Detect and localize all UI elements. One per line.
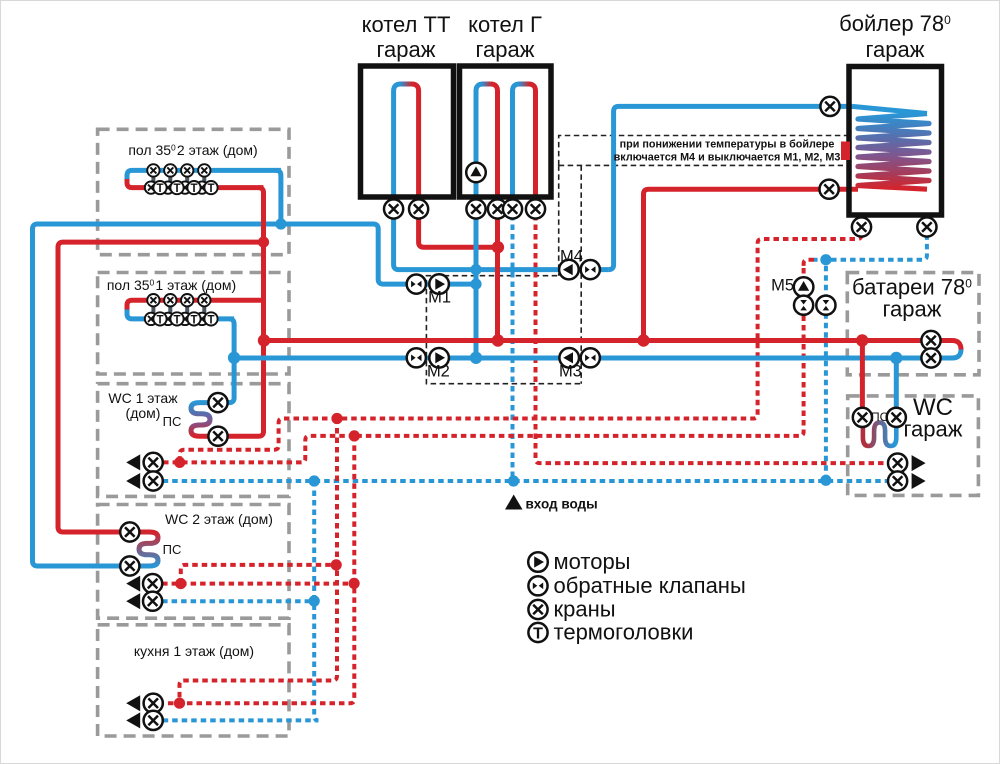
svg-text:гараж: гараж [883,297,942,322]
svg-text:М3: М3 [559,363,582,381]
manifold pol2 links [153,174,204,183]
svg-text:WC 2 этаж (дом): WC 2 этаж (дом) [165,511,273,527]
wire kotel TT U-top gradient [394,84,419,91]
tap triangle WC2 cold [126,593,140,609]
zone box WC garazh [848,396,979,496]
valve kotel TT red [409,199,428,218]
tap triangle kitchen cold [126,712,140,728]
wire kotel G loop2 blue [510,91,515,215]
svg-text:обратные клапаны: обратные клапаны [554,573,746,598]
wire pol2 red riser [259,188,264,243]
wire dhw hot trunk A down [180,419,338,704]
svg-text:гараж: гараж [904,417,963,442]
wire kotel TT blue down and M4 feed line [394,91,609,270]
check valve M4 [581,260,600,279]
valve batarei return [921,348,940,367]
wire heating blue main return [234,350,961,359]
valve boiler bottom red line [820,180,839,199]
wire blue line y224 to M1 [281,224,476,284]
legend valve symbol [528,600,547,619]
svg-text:моторы: моторы [554,549,631,574]
pump M1 [429,274,449,294]
towel warmer PS WC1 [191,403,218,437]
pump kotel G internal [466,163,486,183]
valve boiler dhw cold [917,217,936,236]
valve kotel G loop1 blue [466,199,485,218]
wire kotel G loop2 U-top [513,84,536,91]
svg-text:пол 350 1 этаж (дом): пол 350 1 этаж (дом) [107,277,236,293]
valve WC1 PS top [208,393,227,412]
check valve M1 [407,275,426,294]
junction node pol2 blue [275,218,286,229]
valve boiler top blue [820,97,839,116]
wire boiler blue stub [924,215,929,222]
zone box WC 1 etazh dom [98,384,289,497]
junction node dhw kitchen tap [174,698,185,709]
wire dhw recirc gradient elbow [804,260,814,268]
svg-text:включается М4 и выключается М1: включается М4 и выключается М1, М2, М3 [614,152,841,164]
wire pol1 manifold blue bar [127,310,234,319]
svg-text:WC 1 этаж: WC 1 этаж [108,390,178,406]
manifold pol1 T heads [153,312,166,326]
wire dhw WC2 tap row [153,582,354,586]
junction node dhw recirc trunkB top [349,430,360,441]
tap triangle WC garazh hot [912,455,926,471]
wire heating red far-left loop [58,242,264,532]
svg-text:ПС: ПС [163,414,182,429]
svg-text:котел Г: котел Г [468,12,542,37]
pump M4 [559,260,579,280]
boiler coil [858,114,929,190]
svg-text:котел ТТ: котел ТТ [362,12,451,37]
svg-text:М4: М4 [560,248,583,266]
junction node red mains merge [492,241,504,253]
manifold pol2 T heads [153,181,166,195]
valve WC2 hot tap [143,574,162,593]
wire kotel G loop1 red [495,91,500,341]
control dashed M1-M2-M3 group frame [426,276,581,384]
svg-text:ПС: ПС [163,542,182,557]
manifold pol2 valves [147,164,159,176]
wire dhw cold riser to boiler inlet [824,260,828,481]
check valve M3 [581,348,600,367]
svg-text:гараж: гараж [476,37,535,62]
junction node dhw cold trunk [309,475,320,486]
junction node red main kotel G [492,334,504,346]
junction node dhw WC2 trunkB [349,578,360,589]
junction node red main left [258,334,270,346]
junction node blue main left [228,352,240,364]
junction node dhw WC2 upper [331,559,342,570]
wire kotel G loop2 red [533,91,538,215]
towel warmer PS WC2 [138,532,158,566]
junction node blue M4 line [470,264,481,275]
wire dhw cold main horizontal [153,479,896,483]
svg-text:кухня 1 этаж (дом): кухня 1 этаж (дом) [134,643,254,659]
valve WC1 PS bottom [208,427,227,446]
manifold pol1 valves [147,294,159,306]
svg-text:М2: М2 [427,363,450,381]
valve kotel TT blue [384,199,403,218]
wire heating blue far-left loop [33,224,281,566]
wire boiler red stub [859,215,864,222]
valve kotel G loop2 blue [503,199,522,218]
control dashed riser right / M-group right edge [580,165,582,383]
valve boiler dhw hot [852,217,871,236]
svg-text:бойлер 780: бойлер 780 [839,11,951,36]
wire dhw hot kotel G loop2 down to WC garazh [536,215,898,463]
svg-text:краны: краны [554,597,616,622]
wire batarei red riser down to WC garazh PS [860,341,865,413]
svg-text:при понижении температуры в бо: при понижении температуры в бойлере [620,139,835,151]
zone box batarei garazh [847,273,979,375]
check valve M2 [407,348,426,367]
tap triangle WC1 hot [126,454,140,470]
valve WC1 cold tap [144,471,163,490]
wire dhw cold WC2 row [153,599,315,603]
wire dhw recirc M5 riser [354,268,803,436]
svg-text:T: T [533,626,543,643]
wire dhw cold trunk down left [314,481,318,720]
kotel box G [460,66,552,197]
valve kitchen hot tap [144,694,163,713]
wire pol1 blue riser to main [229,319,234,358]
valve WC2 cold tap [143,592,162,611]
wire dhw cold boiler inlet elbow [814,215,927,259]
water inlet triangle [505,495,523,510]
wire kotel TT red down elbow [419,91,498,247]
valve WC garazh hot tap [888,454,907,473]
zone box WC 2 etazh dom [98,505,289,619]
control dashed text frame [559,136,848,166]
towel warmer PS WC garazh [863,419,896,446]
zone box kuhnya 1 etazh dom [98,625,289,736]
junction node dhw cold boiler branch [820,475,831,486]
junction node dhw cold boiler riser [820,254,831,265]
wire pol2 manifold red bar [127,179,264,188]
wire dhw recirc trunk B down [153,436,354,703]
boiler temp sensor [841,142,850,161]
valve WC1 hot tap [144,453,163,472]
check valve boiler cold riser [816,296,835,315]
svg-text:термоголовки: термоголовки [554,620,694,645]
wire dhw hot boiler out elbow [337,215,862,418]
valve WC2 PS top [120,522,139,541]
legend thermo head symbol [528,623,547,643]
junction node dhw WC2 tap [175,578,186,589]
wire kotel G loop1 blue [474,91,479,358]
svg-text:гараж: гараж [866,37,925,62]
valve WC garazh cold tap [888,471,907,490]
wire pol1 U gradient [125,304,130,316]
wire heating red main [264,341,961,350]
pump M3 [559,348,579,368]
wire pol2 manifold blue bar [127,170,281,179]
manifold pol2 X circles [145,181,157,193]
zone box pol 35-2 etazh dom [98,129,289,254]
svg-text:ПС: ПС [871,410,889,424]
pump M2 [429,348,449,368]
valve kotel G loop2 red [526,199,545,218]
legend check valve symbol [528,576,547,595]
wire pol1 manifold red bar [127,300,264,309]
wire heating blue trunk down to WC1 [218,358,234,403]
wire dhw cold riser to kotel G loop2 [511,215,515,481]
junction node blue M1 line [470,279,481,290]
wire dhw WC2 upper branch [181,565,336,584]
valve WC2 PS bottom [120,556,139,575]
junction node blue main kotel G [470,352,482,364]
check valve M5 [794,296,813,315]
tap triangle kitchen hot [126,695,140,711]
wire blue riser to boiler top [609,106,852,269]
junction node red main batarei [856,334,868,346]
valve kotel G loop1 red [488,199,507,218]
svg-text:М1: М1 [428,289,451,307]
wire pol2 blue riser [276,170,281,224]
manifold pol1 X circles [145,313,157,325]
legend pump symbol [528,552,548,572]
pump M5 [794,277,814,297]
wire heating red trunk down to WC1 [218,242,264,436]
valve batarei supply [921,331,940,350]
valve WC garazh PS right [887,408,906,427]
svg-text:вход воды: вход воды [526,497,598,512]
svg-text:(дом): (дом) [126,405,161,421]
control dashed riser left to M4 group [558,165,560,275]
junction node dhw cold inlet [508,475,519,486]
valve kitchen cold tap [144,711,163,730]
junction node dhw WC1 tap [174,457,185,468]
kotel box TT [361,66,454,197]
junction node dhw WC2 cold [309,595,320,606]
boiler box [849,67,942,216]
wire dhw hot upper line to WC1 [180,419,337,463]
svg-text:М5: М5 [771,277,794,295]
svg-text:пол 350 2 этаж (дом): пол 350 2 этаж (дом) [128,142,257,158]
tap triangle WC garazh cold [912,473,926,489]
valve WC garazh PS left [853,408,872,427]
wire dhw recirc to WC1 row [153,436,354,463]
wire pol2 U gradient [125,174,130,185]
junction node dhw hot trunkA top [331,413,342,424]
wire dhw cold kitchen row [153,718,318,722]
manifold pol1 links [153,304,204,313]
wire kotel G loop1 U-top [476,84,498,91]
zone box pol 35-1 etazh dom [98,273,289,375]
wire blue into boiler coil [852,106,927,113]
junction node red main boiler return [637,334,649,346]
junction node blue main batarei [890,352,902,364]
svg-text:гараж: гараж [377,37,436,62]
tap triangle WC2 hot [126,576,140,592]
wire boiler red return elbow [644,189,859,340]
wire batarei blue riser down to WC garazh PS [894,358,899,413]
junction node pol2 red [258,237,269,248]
tap triangle WC1 cold [126,473,140,489]
